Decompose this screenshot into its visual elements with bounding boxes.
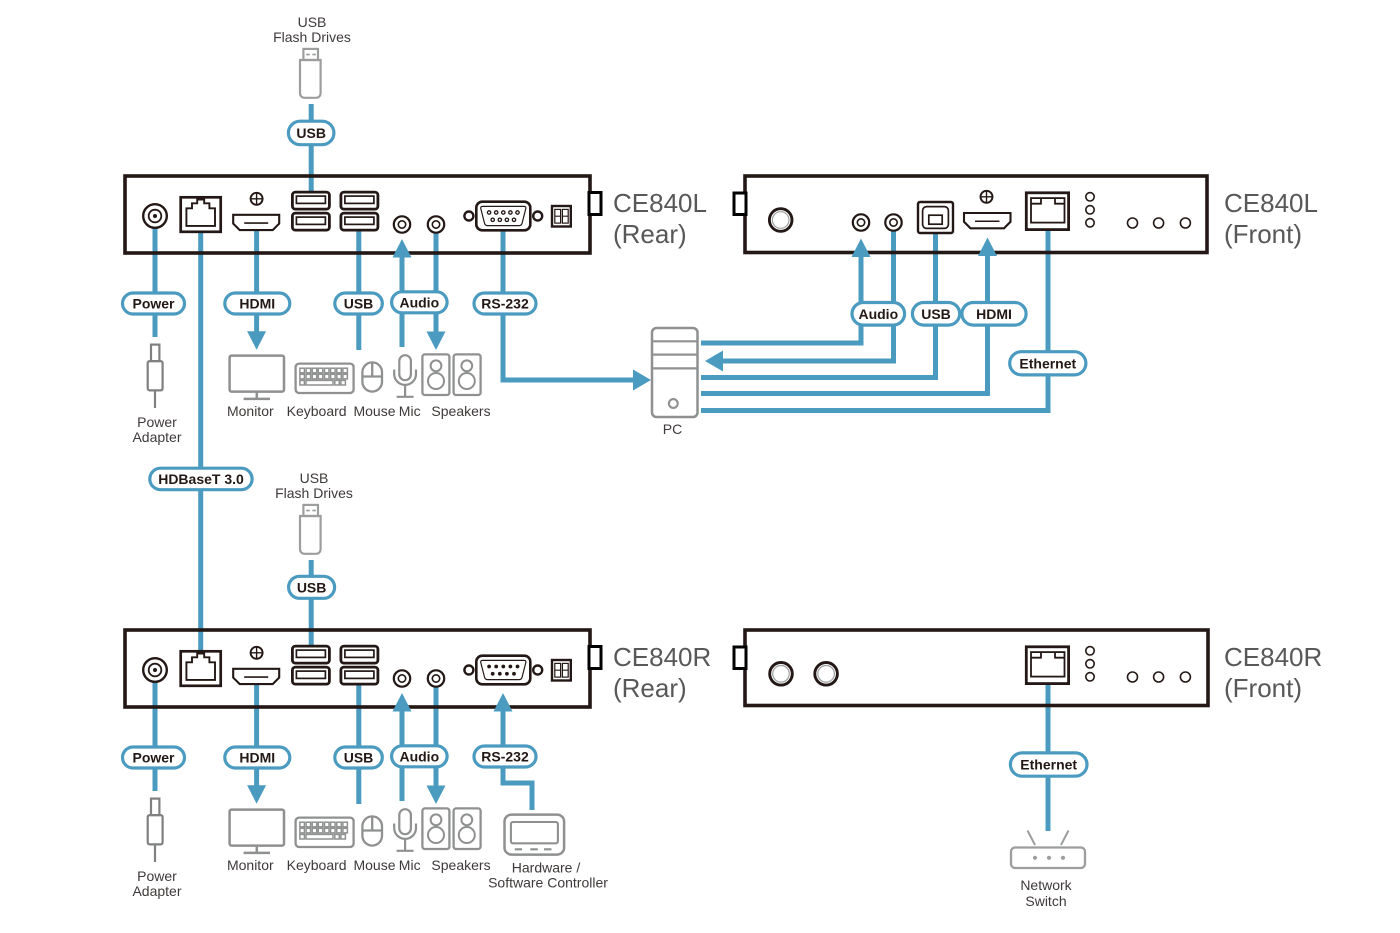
speakers icon (top) [422,354,449,395]
USB port 1 CE840R rear [292,646,329,663]
screw above HDMI CE840R rear [251,647,263,659]
wire: HDBaseT link CE840L rear RJ45 to CE840R rear RJ45 [198,214,203,668]
label pill RS-232 (CE840R) [474,746,536,767]
label pill Audio (CE840L) [392,292,448,313]
label pill USB (top flash drives) [288,121,334,145]
screw above HDMI CE840L front [981,191,993,203]
HDMI port CE840L rear [233,215,279,230]
svg-text:PC: PC [663,421,682,437]
arrow down to speakers (CE840L) [427,332,446,351]
label pill Ethernet (CE840L front) [1010,352,1086,375]
monitor icon (bottom) [230,810,284,853]
arrow up into CE840L rear audio-in [393,239,412,258]
wire: CE840L front audio jack 2 to PC (line-in) [723,224,894,361]
arrow up into CE840L front HDMI [978,238,997,257]
wire: USB flash drive to CE840L rear USB port [309,104,314,192]
svg-text:HDBaseT 3.0: HDBaseT 3.0 [158,471,244,487]
label pill Audio (CE840L front) [852,303,905,326]
monitor icon (top) [230,356,284,399]
audio-out jack CE840L rear [428,216,444,232]
wire: CE840L rear audio-out to speakers (shaft) [434,224,439,332]
svg-text:CE840R: CE840R [613,642,711,672]
label pill HDBaseT 3.0 [150,468,252,490]
audio connector 1 CE840R front [770,663,793,686]
wire: CE840R rear HDMI to monitor [254,678,259,786]
HDMI port CE840L front [964,213,1011,228]
svg-text:USB: USB [296,125,326,141]
svg-text:Mic: Mic [399,857,421,873]
label pill RS-232 (CE840L) [474,293,536,314]
svg-text:HDMI: HDMI [239,296,275,312]
svg-text:HDMI: HDMI [239,750,275,766]
power jack CE840L rear [143,204,167,228]
front panel buttons CE840R front [1128,672,1138,682]
arrow up into CE840R rear RS-232 [494,693,513,712]
label pill USB (bottom flash drives) [289,576,335,598]
audio-out jack CE840R rear [428,670,444,686]
svg-text:USB: USB [344,750,374,766]
arrow up into CE840L front audio jack 1 [852,239,871,258]
wire: PC USB to CE840L front USB-B [701,226,936,378]
keyboard icon (top) [296,364,354,393]
keyboard icon (bottom) [296,818,354,847]
arrow down to monitor (CE840L) [247,331,266,350]
mouse icon (bottom) [362,816,382,845]
USB flash drive icon (top) [300,49,321,98]
label pill USB (CE840L front) [912,303,959,326]
svg-text:Speakers: Speakers [431,403,490,419]
svg-text:Flash Drives: Flash Drives [273,29,351,45]
svg-text:Mic: Mic [399,403,421,419]
arrow down to monitor (CE840R) [247,785,266,804]
svg-text:Ethernet: Ethernet [1020,757,1077,773]
speakers icon (bottom) [422,808,449,849]
power jack CE840R rear [143,658,167,682]
device box CE840R (Rear) [125,630,590,707]
label pill Audio (CE840R) [392,746,448,767]
svg-text:(Front): (Front) [1224,219,1302,249]
device box CE840L (Rear) [125,176,590,253]
USB port 4 CE840L rear [341,213,378,230]
mouse icon (top) [362,362,382,391]
svg-text:Power: Power [132,296,175,312]
device box fill CE840L front [745,176,1207,253]
arrow up into CE840R rear audio-in [393,693,412,712]
label pill Ethernet (CE840R front) [1010,753,1087,776]
wire: mic to CE840L rear audio-in (shaft) [400,257,405,348]
audio-in jack CE840L rear [394,216,410,232]
USB port 2 CE840L rear [292,213,329,230]
svg-text:RS-232: RS-232 [481,749,529,765]
svg-text:Adapter: Adapter [132,883,181,899]
label pill HDMI (CE840R) [225,747,290,768]
audio jack 2 CE840L front [885,214,901,230]
svg-text:Power: Power [137,868,177,884]
label pill USB (CE840R) [335,747,383,768]
LED column CE840L front [1086,193,1094,201]
arrow down to speakers (CE840R) [427,786,446,805]
power adapter icon (bottom) [148,799,163,862]
svg-text:CE840R: CE840R [1224,642,1322,672]
mounting tab CE840L rear [589,193,601,215]
wire: mic to CE840R rear audio-in (shaft) [400,711,405,802]
power-ring connector CE840L front [769,209,792,232]
svg-text:USB: USB [300,470,329,486]
svg-text:USB: USB [297,579,327,595]
wire: power adapter to CE840L rear power jack [153,220,158,337]
wire: CE840R front LAN to network switch [1046,676,1051,831]
mounting tab CE840R rear [589,647,601,669]
svg-text:Speakers: Speakers [431,857,490,873]
audio connector 2 CE840R front [815,663,838,686]
svg-text:RS-232: RS-232 [481,296,529,312]
hardware/software controller icon [505,815,565,855]
audio jack 1 CE840L front [853,214,869,230]
screw above HDMI CE840L rear [251,193,263,205]
svg-text:Hardware /: Hardware / [512,860,581,876]
wire: CE840L rear HDMI to monitor [254,224,259,332]
USB flash drive icon (bottom) [300,505,321,554]
arrow right into PC (RS-232) [633,370,651,391]
device box CE840L (Front) [745,176,1207,253]
svg-text:(Front): (Front) [1224,673,1302,703]
svg-text:CE840L: CE840L [1224,188,1318,218]
microphone icon (bottom) [394,809,416,851]
USB-B port CE840L front [918,202,953,233]
RJ45 HDBaseT port CE840L rear [181,197,221,232]
svg-text:Software Controller: Software Controller [488,875,608,891]
arrow left into PC (audio line-in) [705,351,723,372]
terminal block CE840R rear [552,660,571,681]
USB port 2 CE840R rear [292,667,329,684]
svg-text:Mouse: Mouse [353,857,395,873]
svg-text:USB: USB [921,306,951,322]
svg-text:USB: USB [344,296,374,312]
USB port 3 CE840L rear [341,192,378,209]
svg-text:Monitor: Monitor [227,857,274,873]
device box fill CE840L rear [125,176,590,253]
LED column CE840R front [1086,647,1094,655]
svg-text:(Rear): (Rear) [613,673,687,703]
svg-text:USB: USB [298,14,327,30]
svg-text:Network: Network [1020,877,1072,893]
USB port 3 CE840R rear [341,646,378,663]
svg-text:Audio: Audio [399,748,439,764]
terminal block CE840L rear [552,206,571,227]
mounting tab CE840R front [734,647,746,669]
wire: hardware controller to CE840R rear RS-232 (shaft) [503,711,532,811]
wire: CE840L rear RS-232 to PC [503,222,633,380]
label pill Power (CE840R) [123,747,185,768]
svg-text:Flash Drives: Flash Drives [275,485,353,501]
wire: PC ethernet to CE840L front LAN [701,222,1048,411]
svg-text:Audio: Audio [858,306,898,322]
svg-text:Power: Power [132,750,175,766]
svg-text:Keyboard: Keyboard [287,857,347,873]
svg-text:Audio: Audio [399,294,439,310]
svg-text:Monitor: Monitor [227,403,274,419]
wire: CE840R rear USB to keyboard/mouse [356,678,361,804]
PC tower icon [652,328,698,417]
front panel buttons CE840L front [1128,218,1138,228]
wire: PC audio out to CE840L front audio jack 1 (shaft) [701,257,861,344]
USB port 1 CE840L rear [292,192,329,209]
svg-text:Ethernet: Ethernet [1019,355,1076,371]
wire: USB flash drive to CE840R rear USB port [309,560,314,648]
svg-text:(Rear): (Rear) [613,219,687,249]
USB port 4 CE840R rear [341,667,378,684]
wire: CE840R rear audio-out to speakers (shaft) [434,678,439,786]
svg-text:Power: Power [137,414,177,430]
label pill Power (CE840L) [123,293,185,314]
svg-text:Keyboard: Keyboard [287,403,347,419]
label pill HDMI (CE840L) [225,293,290,314]
svg-text:HDMI: HDMI [976,306,1012,322]
label pill USB (CE840L) [335,293,383,314]
audio-in jack CE840R rear [394,670,410,686]
device box fill CE840R front [745,630,1208,706]
svg-text:Mouse: Mouse [353,403,395,419]
device box CE840R (Front) [745,630,1208,706]
label pill HDMI (CE840L front) [962,303,1026,326]
RJ45 HDBaseT port CE840R rear [181,651,221,686]
svg-text:CE840L: CE840L [613,188,707,218]
DB9 RS-232 port CE840L rear [464,212,473,221]
DB9 RS-232 port CE840R rear [464,666,473,675]
wire: power adapter to CE840R rear power jack [153,674,158,791]
mounting tab CE840L front [734,193,746,215]
HDMI port CE840R rear [233,669,279,684]
device box fill CE840R rear [125,630,590,707]
network switch icon [1011,831,1085,869]
microphone icon (top) [394,355,416,397]
svg-text:Adapter: Adapter [132,429,181,445]
RJ45 LAN port CE840R front [1026,647,1068,684]
svg-text:Switch: Switch [1025,893,1066,909]
wire: PC HDMI to CE840L front HDMI (shaft) [701,256,988,394]
power adapter icon (top) [148,345,163,408]
wire: CE840L rear USB to keyboard/mouse [356,224,361,350]
RJ45 LAN port CE840L front [1026,193,1068,230]
